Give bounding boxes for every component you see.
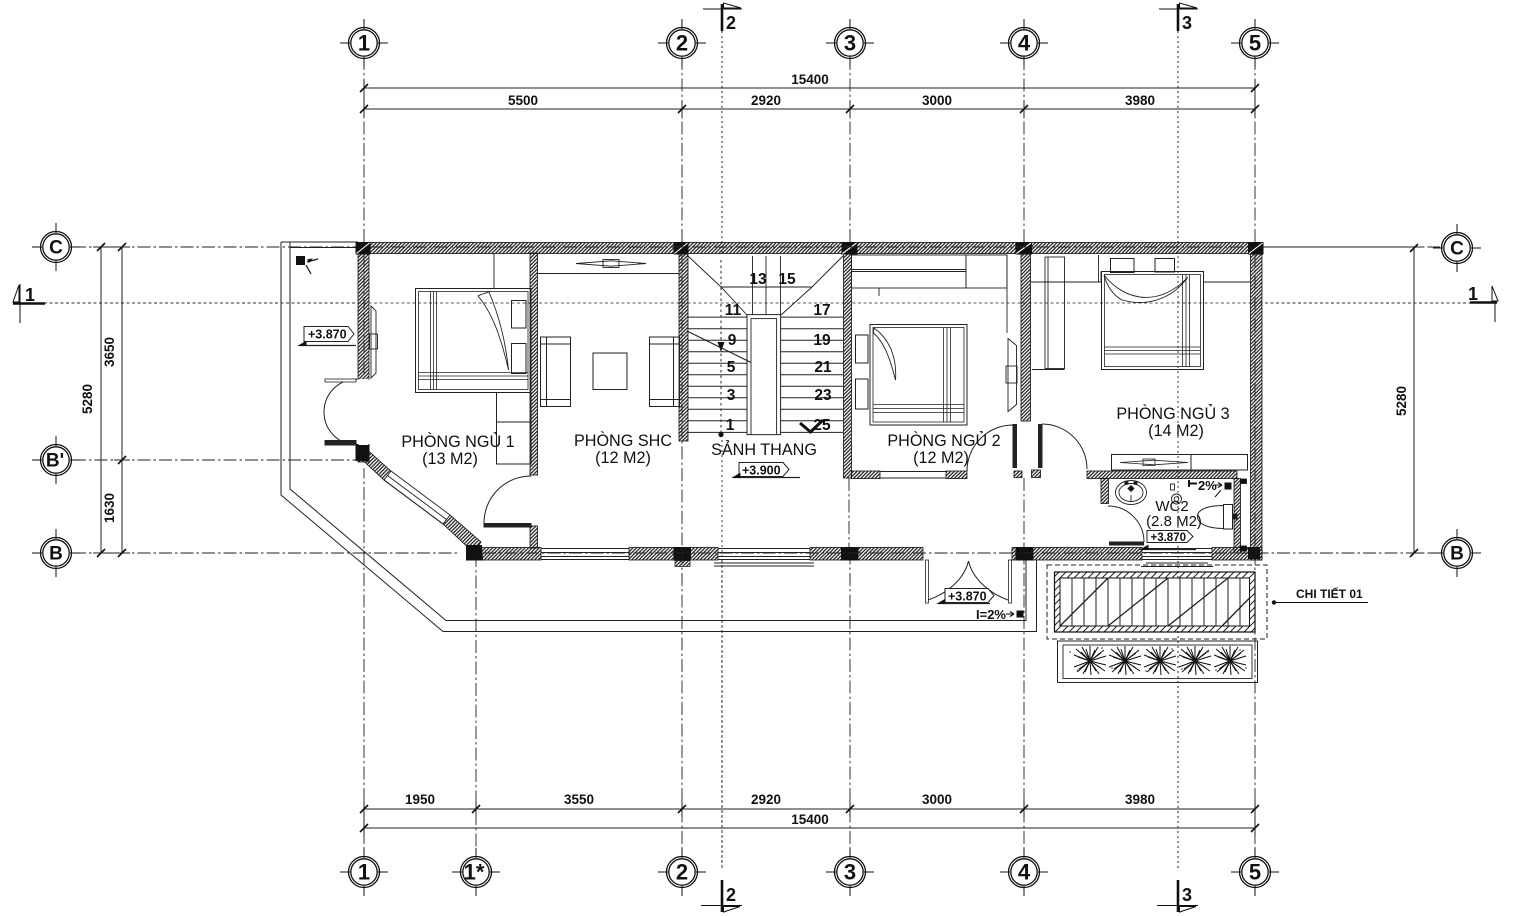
wall interior wc right [1234,479,1241,554]
grid line B' horizontal [73,459,370,461]
wall top exterior [358,243,1262,254]
balcony double door curved leaves [928,561,1008,600]
door left wall double swing [324,379,369,445]
grid line B horizontal [73,552,1440,554]
stair treads right flight [781,317,843,432]
window bottom 2 hall [714,549,814,567]
svg-text:1*: 1* [464,860,485,885]
window bottom WC [1141,549,1213,567]
wall interior ngu2 bottom [852,471,881,479]
svg-text:B: B [1450,544,1464,565]
section marker 3 top [1159,3,1198,33]
stair direction dotted line with arrow and dot [718,260,725,437]
svg-text:B: B [49,544,63,565]
svg-text:(12 M2): (12 M2) [595,449,651,467]
svg-text:3980: 3980 [1125,93,1155,108]
dresser ngu3 bottom [1112,455,1248,471]
balcony door opening jambs [926,560,929,603]
shc top shelf line [538,273,680,275]
grid bubbles top [340,19,1279,67]
room label shc [574,431,672,467]
svg-text:I=2%: I=2% [976,607,1006,622]
svg-text:2: 2 [676,860,688,885]
svg-text:23: 23 [814,387,832,404]
headboard counter ngu3 [1031,255,1250,282]
stair arrow bottom chevron [800,420,823,432]
dimension lines bottom [364,801,1255,836]
grid line C horizontal [73,246,1440,248]
door jambs grid4 bottom [1014,471,1022,478]
svg-text:3980: 3980 [1125,792,1155,807]
svg-text:+3.870: +3.870 [948,590,987,604]
planter dots [1069,647,1247,672]
section marker 1 right [1468,284,1498,322]
svg-text:3000: 3000 [922,93,952,108]
wall left exterior [358,243,369,380]
grid bubbles right C B [1433,224,1481,577]
dimension ticks left [97,243,126,557]
svg-text:+3.900: +3.900 [742,464,781,478]
bed 1 ngu1 [416,289,532,393]
wall bottom exterior segment 5 [1212,548,1262,561]
ceiling fan shc [576,260,646,268]
terrace outline left-bottom [281,242,1037,632]
svg-text:3: 3 [1182,885,1192,905]
AC unit left wall ngu1 [370,306,378,378]
svg-text:2920: 2920 [751,93,781,108]
columns black top wall [356,242,1264,255]
wall interior hall left grid2 [679,253,688,441]
dimension ticks top [360,84,1259,113]
svg-text:PHÒNG NGỦ 2: PHÒNG NGỦ 2 [887,431,1000,450]
svg-text:5: 5 [727,359,736,376]
svg-text:(13 M2): (13 M2) [422,450,478,468]
room label sanh thang [711,440,817,459]
svg-text:2: 2 [726,885,736,905]
corridor slope label I=2% [976,607,1024,622]
ngu2 bottom recessed band [880,472,946,479]
sofa left shc [541,337,571,407]
wall interior grid4 [1021,253,1031,421]
svg-text:3550: 3550 [564,792,594,807]
svg-text:5: 5 [1249,31,1261,56]
svg-text:1: 1 [358,860,370,885]
dimension ticks right [1410,244,1418,557]
dimension ticks bottom [360,805,1259,832]
room label ngu2 [887,431,1000,467]
svg-text:(2.8 M2): (2.8 M2) [1146,513,1202,530]
wc2 level label +3.870 [1141,531,1196,550]
svg-text:2920: 2920 [751,792,781,807]
svg-text:3: 3 [844,860,856,885]
svg-text:1950: 1950 [405,792,435,807]
svg-text:1: 1 [1468,284,1478,304]
window bottom 1 [541,549,629,560]
dimension labels left [80,337,117,523]
stair break line [687,331,751,363]
section line 2 dotted vertical [721,31,723,868]
planter box [1058,641,1258,683]
svg-text:19: 19 [813,332,831,349]
table shc [593,353,627,390]
balcony grating [1055,572,1256,632]
svg-text:SẢNH THANG: SẢNH THANG [711,440,817,459]
closet ngu2 right wall [1006,339,1017,412]
wall interior stub below ngu1 door [530,526,538,548]
grid line 5 vertical [1254,57,1256,858]
svg-text:15: 15 [778,271,796,288]
wall bottom exterior segment 4 [1012,548,1142,561]
svg-text:9: 9 [728,332,737,349]
grid line 1* vertical [475,468,477,858]
svg-text:3: 3 [727,387,736,404]
bed 2 ngu2 [856,325,968,426]
grid bubbles left C B' B [32,223,80,577]
dimension labels top [508,72,1155,108]
door ngu2 arc [967,424,1017,472]
stair void double rect [747,315,781,435]
columns black bottom wall [674,547,1261,561]
svg-text:4: 4 [1018,31,1031,56]
desk below bed1 [497,393,532,465]
door ngu1 arc [484,476,532,528]
svg-text:PHÒNG SHC: PHÒNG SHC [574,431,672,450]
section marker 3 bottom [1157,880,1198,912]
svg-text:+3.870: +3.870 [1151,532,1187,544]
svg-text:3: 3 [1182,13,1192,33]
wall bottom exterior segment 1 [468,548,541,561]
section line 1 dashed horizontal [44,302,1470,304]
spot symbol black square with arrow [296,256,318,274]
svg-text:C: C [49,238,63,259]
svg-text:1: 1 [726,417,735,434]
section marker 2 top [703,3,742,33]
door wc2 arc [1108,506,1144,546]
shaft stub top [1241,479,1247,484]
wall interior hall right grid3 [844,253,852,478]
wall interior divider ngu1-shc [530,253,538,475]
building footprint [357,242,1262,560]
dimension labels bottom [405,792,1155,827]
wall bottom exterior segment 2 [629,548,718,561]
grid lines over walls [364,247,1255,560]
ngu1 top partition line [493,253,495,289]
svg-text:2: 2 [676,31,688,56]
svg-text:CHI TIẾT 01: CHI TIẾT 01 [1296,586,1363,601]
planter plants [1074,646,1246,675]
wall diagonal exterior [357,447,391,480]
svg-text:PHÒNG NGỦ 1: PHÒNG NGỦ 1 [401,432,514,451]
hall level label +3.900 [733,463,800,478]
white diagonal slashes on top columns [357,243,1263,254]
wc2 toilet [1198,505,1238,530]
wardrobe ngu3 left [1032,257,1065,370]
grid line 2 vertical [681,57,683,858]
sofa right shc [650,337,680,407]
wardrobe band ngu2 top [852,255,1008,333]
grid bubbles bottom [340,848,1279,896]
door ngu3 arc [1038,424,1087,469]
svg-text:1: 1 [25,285,35,305]
section marker 2 bottom [701,880,742,912]
svg-text:15400: 15400 [791,72,829,87]
wall interior wc top divider [1087,471,1237,479]
svg-text:15400: 15400 [791,812,829,827]
svg-text:C: C [1450,239,1464,260]
room label wc2 [1146,498,1202,530]
dimension lines left [93,247,130,553]
balcony dashed outline [1047,565,1267,639]
svg-text:(14 M2): (14 M2) [1148,422,1204,440]
svg-text:13: 13 [749,271,767,288]
room label ngu3 [1116,404,1229,440]
svg-text:25: 25 [813,417,831,434]
svg-text:2: 2 [726,13,736,33]
svg-text:5500: 5500 [508,93,538,108]
svg-text:1: 1 [358,31,370,56]
svg-text:3650: 3650 [102,337,117,367]
wall right exterior grid5 [1251,243,1263,561]
room label ngu1 [401,432,514,468]
svg-text:3: 3 [844,31,856,56]
svg-text:21: 21 [814,359,832,376]
column hatched stub below grid2 [675,561,690,567]
grid line 4 vertical [1023,57,1025,858]
terrace level label +3.870 [299,327,356,346]
bed 3 ngu3 [1102,259,1204,370]
dimension lines top [364,80,1255,117]
svg-text:5: 5 [1249,860,1261,885]
balcony level label +3.870 [938,589,994,604]
svg-text:4: 4 [1018,860,1031,885]
section line 3 dotted vertical [1177,31,1179,868]
stair winder top [688,256,843,315]
svg-text:11: 11 [725,302,742,319]
svg-text:+3.870: +3.870 [308,328,347,342]
svg-text:1630: 1630 [102,493,117,523]
stair numbers [725,271,832,434]
svg-text:PHÒNG NGỦ 3: PHÒNG NGỦ 3 [1116,404,1229,423]
grid line 3 vertical [849,57,851,858]
dimension line right [1264,247,1422,553]
wc2 slope label [1189,478,1232,497]
wall bottom exterior segment 3 [810,548,923,561]
columns black diagonal corner + left wall end [356,444,484,561]
stair treads left flight [688,317,747,432]
svg-text:17: 17 [813,302,830,319]
wc2 sink [1116,481,1147,505]
window diagonal 3-line [384,471,450,524]
svg-text:5280: 5280 [1394,386,1409,416]
chi tiet 01 leader [1272,586,1368,605]
grid line 1 vertical [363,57,365,858]
svg-text:B': B' [46,451,64,472]
svg-text:3000: 3000 [922,792,952,807]
wc2 floor drain [1171,484,1182,504]
svg-text:5280: 5280 [80,384,95,414]
wall interior wc left stub [1101,479,1109,504]
section marker 1 left [13,284,45,323]
svg-text:(12 M2): (12 M2) [913,449,969,467]
